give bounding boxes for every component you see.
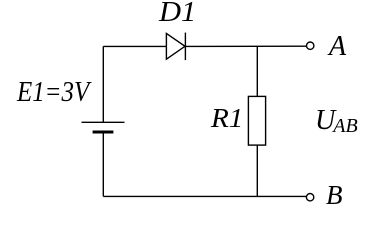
diode D1 <box>166 33 185 61</box>
wire resistor bottom to bottom rail <box>256 145 258 196</box>
label R1 <box>211 104 243 132</box>
wire left rail upper (top corner down to battery) <box>102 46 104 122</box>
battery E1 long plate <box>82 121 125 123</box>
terminal B circle <box>306 194 313 201</box>
terminal A circle <box>307 42 314 49</box>
label E1=3V <box>17 79 89 107</box>
label A <box>329 33 346 61</box>
resistor R1 body <box>248 96 265 145</box>
battery E1 short thick plate <box>93 131 114 134</box>
wire junction down to resistor top <box>256 46 258 96</box>
label B <box>326 182 343 209</box>
wire diode cathode to terminal A <box>185 45 306 47</box>
label U_AB <box>315 107 358 136</box>
wire bottom rail <box>103 195 306 197</box>
label D1 <box>159 0 196 27</box>
wire left rail lower (battery to bottom rail) <box>102 134 104 197</box>
wire top rail left segment (battery top corner to diode anode) <box>103 45 166 47</box>
